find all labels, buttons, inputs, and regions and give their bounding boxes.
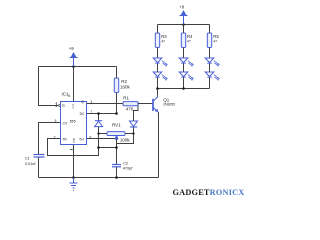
svg-text:R5: R5 xyxy=(213,34,219,39)
svg-text:C: C xyxy=(72,106,74,110)
svg-text:+9: +9 xyxy=(69,46,74,51)
svg-text:TR: TR xyxy=(62,137,67,141)
svg-text:47: 47 xyxy=(161,40,165,44)
svg-text:R4: R4 xyxy=(187,34,193,39)
svg-text:5: 5 xyxy=(55,119,57,123)
svg-text:GADGETRONICX: GADGETRONICX xyxy=(173,188,245,197)
svg-text:470pf: 470pf xyxy=(123,167,133,171)
svg-text:TH: TH xyxy=(79,137,84,141)
svg-text:2: 2 xyxy=(54,135,56,139)
svg-text:4: 4 xyxy=(56,102,58,106)
svg-text:C2: C2 xyxy=(123,162,128,166)
svg-text:7: 7 xyxy=(91,110,93,114)
svg-text:8: 8 xyxy=(68,94,70,98)
svg-text:R2: R2 xyxy=(121,79,127,84)
svg-text:100k: 100k xyxy=(120,85,131,90)
svg-text:47: 47 xyxy=(187,40,191,44)
svg-text:47: 47 xyxy=(213,40,217,44)
svg-text:C1: C1 xyxy=(25,157,30,161)
svg-text:DC: DC xyxy=(80,112,85,116)
svg-text:470: 470 xyxy=(126,107,134,112)
svg-text:555: 555 xyxy=(70,120,76,124)
svg-text:D: D xyxy=(73,140,75,144)
svg-text:R1: R1 xyxy=(123,95,129,100)
svg-text:100k: 100k xyxy=(120,137,131,142)
svg-text:6: 6 xyxy=(90,135,92,139)
svg-text:3: 3 xyxy=(91,100,93,104)
svg-text:Q: Q xyxy=(81,100,84,104)
svg-text:+9: +9 xyxy=(179,5,184,10)
svg-text:RV1: RV1 xyxy=(112,123,121,128)
svg-text:CV: CV xyxy=(63,121,68,125)
svg-text:R3: R3 xyxy=(161,34,167,39)
svg-text:2N3055: 2N3055 xyxy=(163,102,175,106)
svg-text:0.01uf: 0.01uf xyxy=(25,162,37,166)
